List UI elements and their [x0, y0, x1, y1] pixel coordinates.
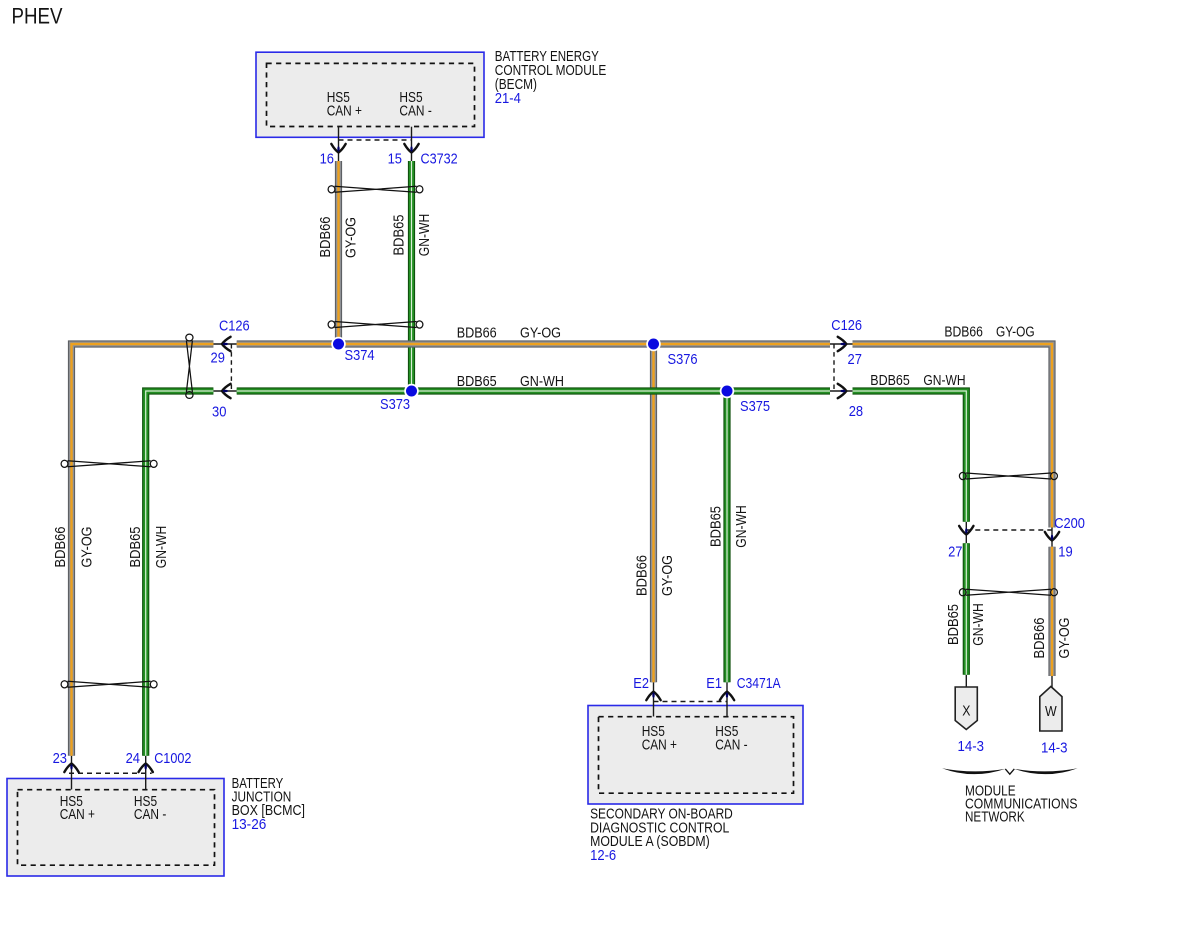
svg-text:CAN +: CAN +: [327, 104, 362, 120]
svg-text:CAN -: CAN -: [715, 738, 748, 754]
svg-text:BDB65: BDB65: [709, 506, 725, 547]
svg-text:S375: S375: [740, 398, 770, 415]
svg-text:S376: S376: [668, 351, 698, 368]
svg-text:NETWORK: NETWORK: [965, 810, 1025, 826]
svg-text:GN-WH: GN-WH: [154, 526, 170, 569]
svg-text:13-26: 13-26: [232, 816, 267, 833]
svg-text:16: 16: [320, 151, 334, 168]
svg-text:BDB66: BDB66: [1032, 618, 1048, 659]
svg-text:GY-OG: GY-OG: [660, 555, 676, 596]
svg-text:BDB66: BDB66: [944, 324, 983, 340]
svg-text:C3732: C3732: [421, 151, 458, 168]
svg-text:BDB65: BDB65: [946, 604, 962, 645]
svg-text:GN-WH: GN-WH: [520, 374, 564, 390]
svg-text:GY-OG: GY-OG: [80, 527, 96, 568]
svg-text:GY-OG: GY-OG: [344, 217, 360, 258]
svg-text:27: 27: [948, 544, 962, 561]
svg-text:23: 23: [53, 750, 67, 767]
svg-text:C3471A: C3471A: [737, 675, 781, 692]
svg-text:W: W: [1045, 703, 1057, 720]
svg-text:S373: S373: [380, 396, 410, 413]
svg-text:19: 19: [1058, 544, 1072, 561]
svg-text:14-3: 14-3: [1041, 740, 1068, 757]
svg-text:CAN +: CAN +: [60, 807, 95, 823]
svg-text:BDB65: BDB65: [457, 374, 497, 390]
svg-text:CAN -: CAN -: [399, 104, 432, 120]
svg-text:CAN +: CAN +: [642, 738, 677, 754]
svg-text:GY-OG: GY-OG: [1057, 618, 1073, 659]
svg-text:29: 29: [211, 350, 225, 367]
svg-text:27: 27: [848, 351, 862, 368]
svg-text:GN-WH: GN-WH: [971, 603, 987, 646]
svg-text:GY-OG: GY-OG: [996, 324, 1035, 340]
svg-text:C126: C126: [831, 317, 862, 334]
svg-text:24: 24: [126, 750, 140, 767]
svg-text:C200: C200: [1054, 515, 1085, 532]
svg-text:BDB66: BDB66: [457, 325, 497, 341]
svg-text:PHEV: PHEV: [12, 4, 63, 29]
svg-text:BDB66: BDB66: [318, 217, 334, 258]
svg-text:30: 30: [212, 404, 226, 421]
svg-text:BDB65: BDB65: [870, 373, 910, 389]
svg-text:GN-WH: GN-WH: [417, 214, 433, 257]
svg-text:BDB66: BDB66: [53, 527, 69, 568]
svg-text:BDB65: BDB65: [392, 215, 408, 256]
svg-text:15: 15: [388, 151, 402, 168]
svg-text:14-3: 14-3: [958, 738, 985, 755]
svg-text:S374: S374: [345, 347, 375, 364]
svg-text:28: 28: [849, 403, 863, 420]
svg-text:21-4: 21-4: [495, 90, 521, 107]
svg-text:GY-OG: GY-OG: [520, 325, 561, 341]
svg-text:E2: E2: [633, 675, 649, 692]
svg-text:C1002: C1002: [154, 750, 191, 767]
svg-text:GN-WH: GN-WH: [923, 373, 965, 389]
svg-text:BDB65: BDB65: [128, 527, 144, 568]
svg-text:E1: E1: [706, 675, 722, 692]
svg-text:12-6: 12-6: [590, 847, 616, 864]
svg-text:CAN -: CAN -: [134, 807, 167, 823]
svg-text:X: X: [962, 702, 970, 719]
svg-text:C126: C126: [219, 318, 250, 335]
svg-text:GN-WH: GN-WH: [734, 505, 750, 548]
svg-text:BDB66: BDB66: [635, 555, 651, 596]
